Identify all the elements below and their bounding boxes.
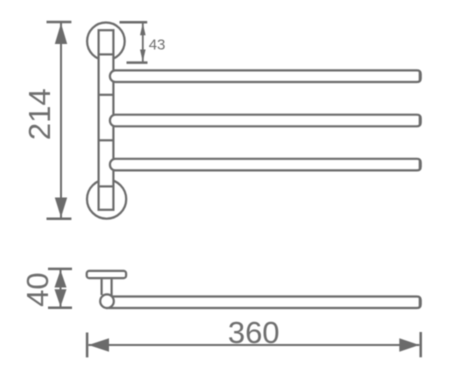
dim 360 arrowhead right: [399, 338, 419, 351]
side bar end cap: [419, 298, 421, 307]
dim 360 left extension tick: [86, 333, 89, 358]
dim 40 vertical line: [60, 270, 62, 307]
side view towel bar: [107, 297, 421, 309]
dim 214 bottom extension tick: [47, 218, 72, 221]
dim 43 vertical line: [142, 23, 144, 62]
svg-text:40: 40: [20, 272, 55, 306]
swing arm 1: [110, 70, 421, 82]
side view stem right line: [110, 279, 112, 296]
dim 214 arrowhead down: [55, 198, 67, 218]
side view stem left line: [100, 279, 102, 295]
side view pivot ball circle: [100, 294, 114, 308]
svg-text:214: 214: [22, 88, 57, 140]
post joint divider 4: [99, 185, 114, 187]
svg-text:360: 360: [228, 315, 280, 350]
dim 214 arrowhead up: [55, 23, 67, 44]
dim 40 arrowhead up: [55, 270, 67, 288]
dim 40 top extension tick: [48, 268, 72, 271]
dim 43 top extension tick: [120, 21, 148, 24]
side view wall plate: [87, 271, 126, 278]
arm 2 end cap: [419, 116, 421, 125]
dim 43 arrowhead down: [140, 50, 146, 62]
arm 3 end cap: [419, 160, 421, 169]
swing arm 2: [110, 115, 421, 127]
post joint divider 1: [99, 53, 114, 55]
post joint divider 2: [99, 94, 114, 96]
top wall rosette circle: [87, 23, 125, 61]
dim 360 horizontal line: [89, 344, 420, 346]
dim 214 vertical line: [60, 23, 62, 218]
vertical pivot post: [99, 30, 114, 210]
dim 360 arrowhead left: [89, 338, 110, 351]
dim 360 right extension tick: [419, 332, 422, 357]
dim 40 bottom extension tick: [48, 307, 72, 310]
dim 43 arrowhead up: [140, 23, 146, 35]
dim 43 bottom extension tick: [127, 61, 148, 64]
dim 40 arrowhead down: [55, 289, 67, 307]
svg-text:43: 43: [149, 37, 166, 54]
bottom wall rosette circle: [87, 180, 126, 219]
swing arm 3: [110, 159, 421, 171]
arm 1 end cap: [419, 72, 421, 81]
post joint divider 3: [99, 139, 114, 141]
dim 214 top extension tick: [47, 21, 72, 24]
